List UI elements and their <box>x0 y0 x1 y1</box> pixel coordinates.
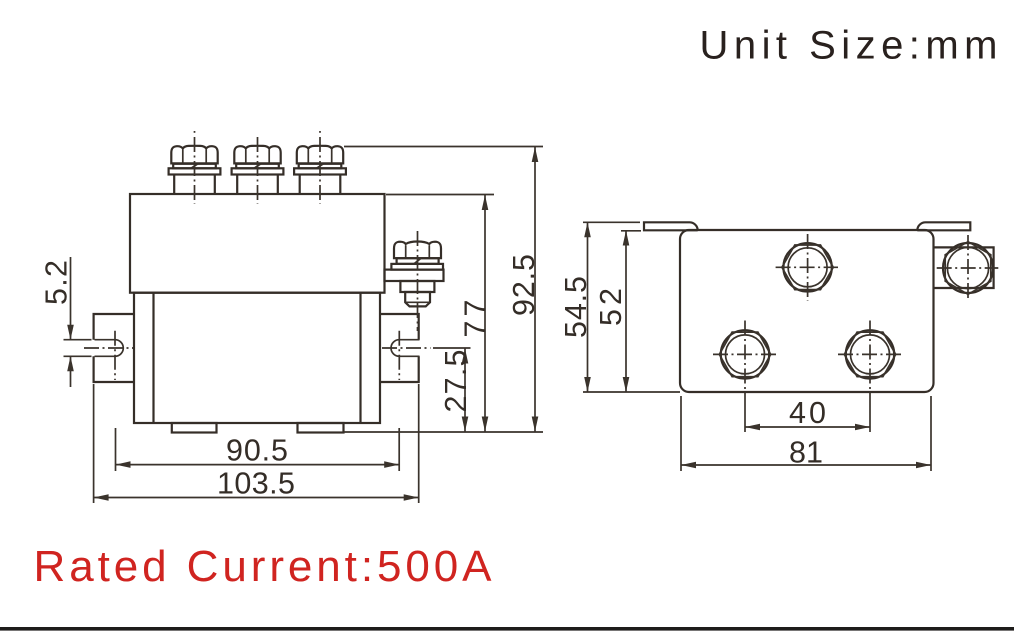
top view bottom-left bolt <box>713 321 777 395</box>
svg-text:27.5: 27.5 <box>439 350 473 413</box>
coil terminal bolt <box>385 242 444 307</box>
left ear slot <box>64 340 124 357</box>
top view bottom-right bolt <box>838 321 902 395</box>
svg-text:40: 40 <box>789 396 826 430</box>
right slot horizontal centerline <box>382 347 431 349</box>
right foot <box>298 423 344 433</box>
dimension 81 <box>681 396 931 471</box>
top view right tab <box>917 222 970 230</box>
svg-text:Unit Size:mm: Unit Size:mm <box>700 24 998 68</box>
top view coil bolt <box>937 235 999 301</box>
svg-text:81: 81 <box>789 436 823 470</box>
terminal bolt 2 <box>232 146 284 194</box>
coil bolt centerline <box>417 231 419 331</box>
centerline bolt 2 <box>257 137 259 204</box>
dimension 103.5 <box>94 384 419 503</box>
svg-text:Rated Current:500A: Rated Current:500A <box>34 542 493 591</box>
dimension 40 <box>745 394 870 432</box>
dimension 77 <box>386 195 494 432</box>
bottom baseline extension <box>344 431 543 433</box>
dimension 27.5 <box>433 348 473 432</box>
centerline bolt 3 <box>319 131 321 204</box>
dimension 92.5 <box>344 147 543 432</box>
dimension 5.2 <box>40 257 74 387</box>
svg-text:92.5: 92.5 <box>507 254 541 316</box>
centerline bolt 1 <box>194 131 196 204</box>
right slot vertical centerline <box>398 331 400 380</box>
front view lower body <box>134 293 380 423</box>
top view left tab <box>644 222 698 230</box>
svg-text:103.5: 103.5 <box>217 467 295 501</box>
svg-text:77: 77 <box>459 300 493 338</box>
svg-text:90.5: 90.5 <box>226 434 288 468</box>
left foot <box>172 423 217 433</box>
top view body <box>680 230 934 392</box>
top view bottom extension <box>583 391 680 393</box>
terminal bolt 3 <box>294 146 346 194</box>
right ear slot <box>391 340 419 357</box>
right mounting ear <box>380 314 419 382</box>
svg-text:54.5: 54.5 <box>559 276 593 338</box>
svg-text:52: 52 <box>594 288 628 326</box>
dimension 54.5 <box>559 222 640 392</box>
dimension 90.5 <box>116 428 400 471</box>
left mounting ear <box>94 314 134 382</box>
left slot vertical centerline <box>114 331 116 380</box>
svg-text:5.2: 5.2 <box>40 260 74 305</box>
front view upper body <box>130 194 385 293</box>
top view coil bolt bracket <box>934 247 994 288</box>
bottom border line <box>0 627 1014 631</box>
top view top bolt <box>776 234 838 301</box>
terminal bolt 1 <box>169 146 221 194</box>
dimension 52 <box>594 231 641 393</box>
left slot horizontal centerline <box>84 347 133 349</box>
